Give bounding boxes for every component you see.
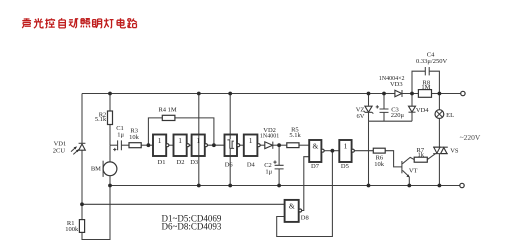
capacitor C2 (polarized) [273,161,283,169]
wire sensor node to D8 input [82,203,285,205]
wire EL to VS [438,119,440,148]
svg-text:VD3: VD3 [390,81,403,88]
diode VD4 [409,106,416,112]
resistor R4 [162,115,175,120]
wire D7 output node feedback down and around to D8 input B [277,151,333,237]
wire bus down to ground rail [368,121,370,185]
wire VT collector to R7 [402,157,414,163]
wire R5 to D7 input A [299,144,309,146]
svg-text:220μ: 220μ [391,112,405,119]
wire D4 output to VD2 anode [260,144,265,146]
wire left rail lower (VD1 anode down to sensor node) [81,150,83,219]
wire VD2 cathode to R5 [273,144,287,146]
wire D2 output to D3 input [189,144,192,146]
svg-text:2CU: 2CU [53,148,66,155]
svg-text:&: & [289,201,295,210]
wire VT emitter to ground rail [408,177,410,186]
junction node ground at VZ bus [367,184,371,188]
wire VD4 cathode to bus [411,112,413,121]
capacitor C4 [425,67,429,75]
junction node sensor (VD1-R1-D8) [80,202,84,206]
resistor R7 [414,157,427,162]
junction node top rail at R2 [108,92,112,96]
junction node VD2-C2-R5 [277,143,281,147]
inverter gate D1 [153,135,169,157]
junction node top rail at D3 [197,92,201,96]
svg-text:~220V: ~220V [460,133,481,142]
transistor VT [402,161,410,177]
svg-text:VD4: VD4 [416,107,429,114]
junction node ground at C2 [277,184,281,188]
svg-text:VD1: VD1 [54,141,67,148]
junction node ground at VT emitter [407,184,411,188]
photodiode VD1 [71,143,85,154]
capacitor C3 (polarized) [376,105,389,112]
svg-text:D7: D7 [311,163,320,170]
junction node ground at D3 [197,184,201,188]
wire C3 bottom to bus [383,112,385,121]
svg-text:D6~D8:CD4093: D6~D8:CD4093 [162,222,222,232]
wire D5 output to R6 [354,150,373,152]
svg-text:5.1k: 5.1k [289,132,301,139]
svg-text:&: & [312,142,318,151]
resistor R8 [418,90,431,98]
svg-text:1μ: 1μ [265,168,272,175]
wire R8 to EL node [432,93,440,95]
wire C1 to R3 [121,144,129,146]
diode VD2 [265,142,273,149]
inverter gate D2 [174,135,190,157]
wire VD3 cathode to R8 [402,93,418,95]
svg-text:D4: D4 [247,161,256,168]
svg-text:1: 1 [196,136,200,145]
wire microphone to ground rail [109,176,111,186]
junction node D3 output / R4 [212,143,216,147]
wire low-voltage bus VZ-C3-VD4 [369,120,413,122]
wire D3 power drop from top rail [198,94,200,135]
svg-text:BM: BM [91,165,101,172]
svg-text:1N4001: 1N4001 [260,133,279,139]
svg-text:1: 1 [344,142,348,151]
junction node D7 output / feedback [331,149,335,153]
inverter gate D5 [339,140,354,162]
resistor R6 [373,148,385,153]
wire top rail to VD3 anode [384,93,395,95]
wire R4 feedback (D1 input up, across, down to D3 output node) [148,118,214,145]
junction node top rail at D6 [228,92,232,96]
svg-text:1k: 1k [418,151,425,158]
svg-text:D1: D1 [158,159,166,166]
lamp EL [435,110,444,119]
junction node ground at BM [108,184,112,188]
junction node VD3-R8-VD4-C4 [410,92,414,96]
svg-text:D3: D3 [190,159,198,166]
svg-text:VS: VS [450,147,459,154]
diode VD3 [395,90,402,97]
wire EL branch down [438,94,440,110]
wire C1 node to microphone [109,145,111,162]
wire ground rail [110,185,460,187]
nand gate D7 [309,140,324,162]
junction node R8-C4-EL [438,92,442,96]
svg-text:10k: 10k [129,134,140,141]
junction node top rail at C3 [382,92,386,96]
svg-text:R4 1M: R4 1M [158,107,176,114]
nand gate D8 [285,200,302,222]
svg-text:1M: 1M [421,84,430,91]
svg-text:6V: 6V [356,113,364,120]
wire C4 parallel branch over R8 [412,71,439,93]
mains terminal bottom [460,183,464,187]
wire top supply rail [82,93,461,95]
wire D6 power drop from top rail [229,94,231,135]
svg-text:10k: 10k [374,161,385,168]
title 声光控自动照明灯电路 (red) [22,18,137,28]
wire C2 branch down from VD2 node [278,145,280,165]
wire D7 output to D5 input [324,150,340,152]
junction node ground at VS [438,184,442,188]
svg-text:1: 1 [178,136,182,145]
svg-text:1μ: 1μ [117,132,124,139]
junction node D1 input / R4 [147,143,151,147]
wire D8 output up to D7 input B [302,157,310,211]
wire R2 branch from top rail [109,94,111,112]
wire EL node to mains terminal [439,93,460,95]
wire VD4 branch from VD3 node [411,94,413,107]
junction node top rail at VZ [367,92,371,96]
resistor R3 [129,143,141,148]
svg-text:0.33μ/250V: 0.33μ/250V [416,58,447,65]
svg-text:VT: VT [409,167,418,174]
zener diode VZ [364,106,374,114]
svg-text:D2: D2 [177,159,185,166]
wire D3 output to D6 input [208,144,225,146]
svg-text:D6: D6 [225,161,234,168]
mains terminal top [461,91,465,95]
wire VZ to low-voltage bus [368,112,370,121]
resistor R2 [108,111,113,125]
wire left rail upper (VD1 cathode to top rail) [81,94,83,144]
svg-text:D8: D8 [301,214,309,221]
schmitt gate D6 [225,135,240,157]
triac VS [433,147,448,153]
wire R3 to D1 input [141,144,153,146]
inverter gate D4 [244,135,260,157]
svg-text:1: 1 [249,136,253,145]
wire R2 to C1 node [109,125,111,146]
wire VS cathode to ground rail [438,154,440,186]
wire C1 node to C1 left plate [110,144,118,146]
resistor R1 [79,220,84,233]
wire D1 output to D2 input [169,144,174,146]
svg-text:EL: EL [446,112,454,119]
wire C3 branch from top rail [383,94,385,109]
wire D3 to ground rail [198,156,200,186]
wire D6 output to D4 input [240,144,244,146]
svg-text:1: 1 [158,136,162,145]
svg-text:100k: 100k [65,226,79,233]
wire C2 bottom to ground rail [278,169,280,186]
wire R7 to VS gate [427,154,435,160]
inverter gate D3 [192,135,208,157]
microphone BM [103,161,117,177]
wire VZ branch from top rail [368,94,370,106]
wire D6 to ground rail [229,156,231,186]
wire R1 bottom loop to ground rail [82,186,110,240]
svg-text:5.1k: 5.1k [95,116,107,123]
resistor R5 [287,143,299,148]
svg-text:D5: D5 [341,163,349,170]
wire R6 to VT base [385,151,401,167]
junction node ground at D6 [228,184,232,188]
capacitor C1 (polarized) [113,140,121,151]
